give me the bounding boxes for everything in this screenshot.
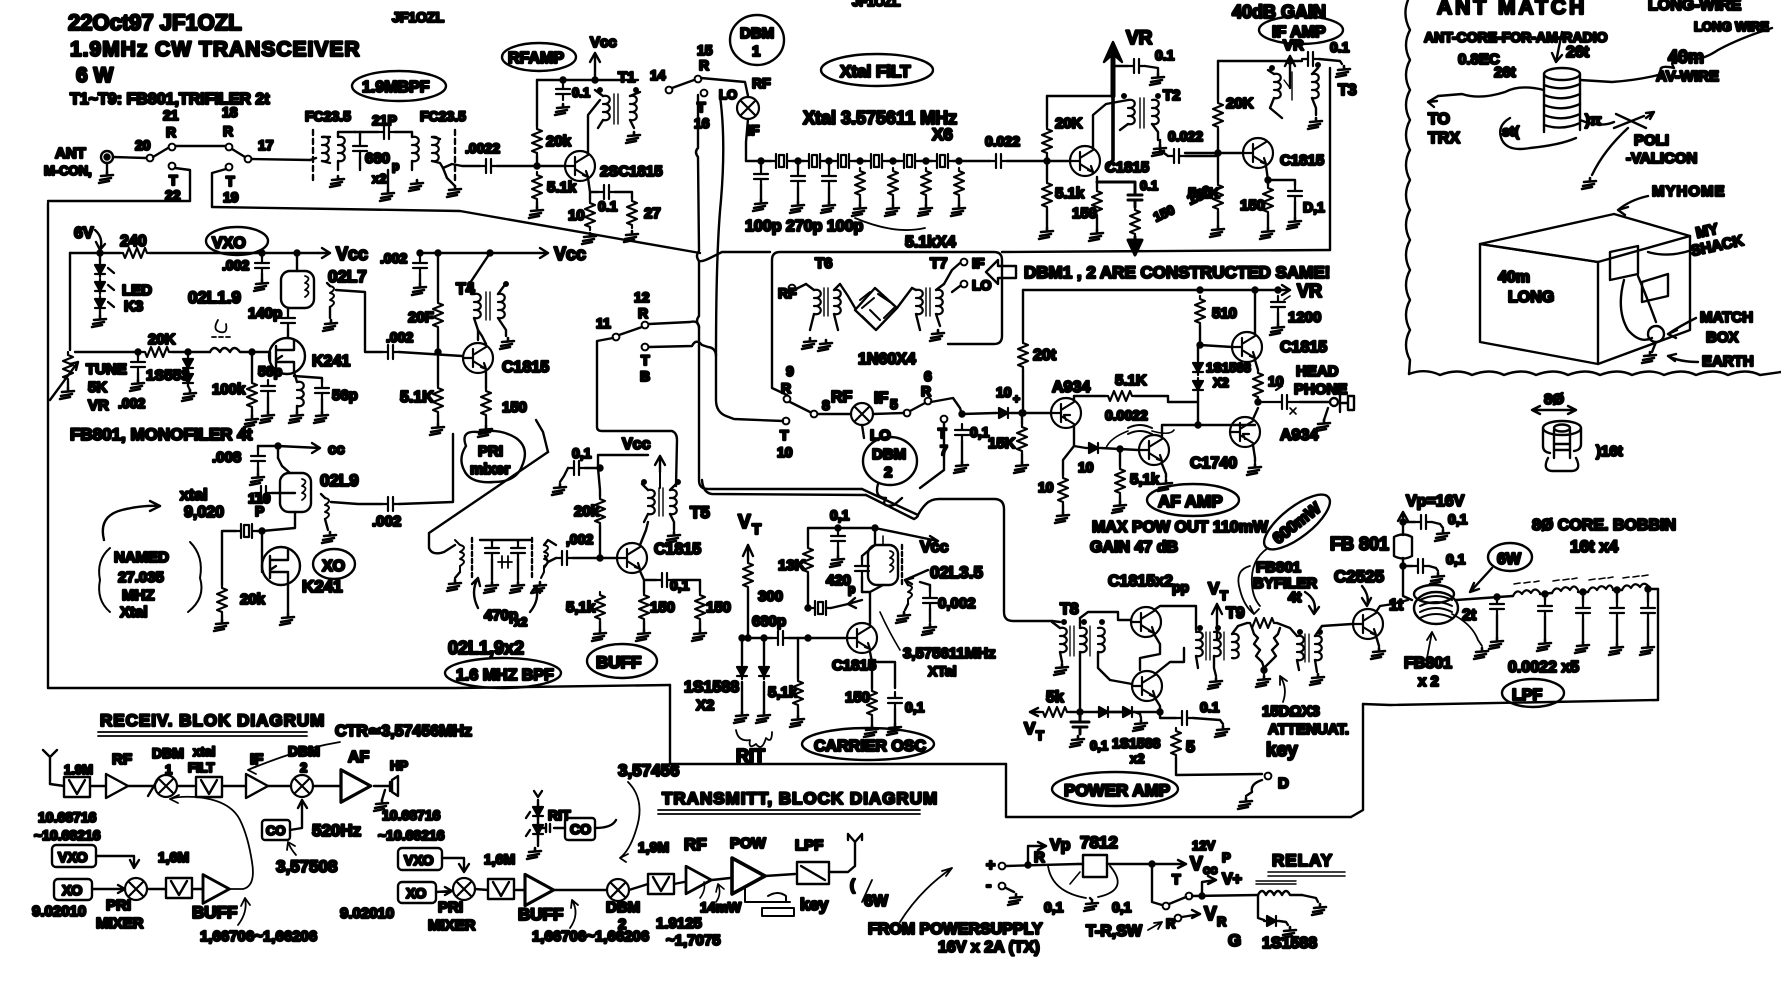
svg-text:RFAMP: RFAMP — [508, 50, 564, 67]
Q2 collector to T9 — [1155, 648, 1184, 674]
relay wire — [1192, 895, 1258, 896]
cap .002 vxo — [255, 257, 269, 274]
wire a934 emitter — [1253, 408, 1258, 419]
svg-text:JF1OZL: JF1OZL — [852, 0, 900, 9]
bus A second line — [702, 480, 866, 495]
svg-text:T1: T1 — [618, 69, 636, 86]
ground BPF out — [447, 186, 461, 197]
svg-text:~10.68216: ~10.68216 — [34, 827, 101, 843]
svg-text:1S1588: 1S1588 — [684, 679, 739, 696]
rx antenna — [43, 750, 57, 784]
crystal X6 — [932, 154, 953, 168]
switch arm 11-12 — [619, 327, 642, 335]
FET K241 vxo — [269, 338, 305, 374]
svg-text:~1,7075: ~1,7075 — [666, 932, 721, 949]
crystal carrier — [810, 601, 831, 615]
svg-text:3,57456: 3,57456 — [618, 761, 679, 780]
psu minus ground — [1006, 888, 1014, 892]
svg-text:-VALICON: -VALICON — [1626, 150, 1697, 167]
oval POWER AMP — [1052, 772, 1178, 806]
svg-text:9: 9 — [786, 363, 794, 379]
svg-text:15K: 15K — [988, 435, 1016, 452]
svg-text:+: + — [986, 857, 995, 874]
svg-text:6W: 6W — [864, 893, 889, 910]
house roof — [1480, 214, 1690, 262]
wire diode col to a934 — [1198, 420, 1255, 425]
svg-text:P: P — [255, 503, 264, 519]
svg-text:T: T — [780, 427, 789, 443]
svg-text:POLI: POLI — [1634, 132, 1669, 149]
cap 420p — [855, 560, 869, 577]
ground T3 — [1308, 118, 1322, 129]
BPF output coil — [432, 137, 439, 161]
svg-text:11: 11 — [596, 315, 611, 331]
vcc arrow buff — [655, 456, 665, 472]
curve 600mW pointer — [1252, 548, 1268, 606]
attenuator out to T10 — [1277, 623, 1297, 636]
svg-text:40m: 40m — [1498, 269, 1530, 286]
transistor C1815 buff — [617, 543, 647, 573]
Q emitters join — [1140, 634, 1160, 712]
oval AF AMP — [1147, 484, 1239, 516]
svg-text:RF: RF — [778, 285, 797, 301]
svg-text:0,1: 0,1 — [905, 699, 925, 715]
c2525 collector out — [1376, 600, 1408, 612]
resistor 300 — [743, 560, 753, 590]
hp ground — [382, 790, 385, 800]
antenna coil cylinder — [1544, 68, 1580, 80]
pa input wire — [1052, 621, 1060, 622]
wire ant to switch — [113, 157, 146, 158]
svg-text:AF AMP: AF AMP — [1158, 492, 1223, 511]
relay feed down — [1152, 864, 1162, 905]
transistor C1815 right — [1243, 138, 1273, 168]
svg-text:Vcc: Vcc — [554, 244, 586, 264]
svg-text:10: 10 — [568, 207, 585, 224]
emitter network — [588, 178, 598, 200]
oval LPF — [1502, 679, 1564, 707]
lpf cap 2 — [1538, 600, 1552, 617]
wire T22 down — [175, 168, 190, 201]
bpf input coil — [455, 540, 464, 572]
svg-text:PRI: PRI — [478, 443, 503, 460]
cap 0.022 to T3 stage — [1168, 149, 1185, 163]
arrow matchbox — [1668, 318, 1696, 338]
omega squiggle — [215, 320, 226, 332]
Vcc arrow vxo — [318, 248, 330, 258]
svg-text:02L3.5: 02L3.5 — [930, 563, 983, 582]
rail if right — [1218, 60, 1302, 62]
cap 56p left — [261, 380, 275, 397]
wire to 15K node — [1011, 412, 1022, 414]
svg-text:P: P — [1222, 850, 1231, 865]
svg-text:5,1K: 5,1K — [1188, 185, 1220, 202]
svg-text:0.022: 0.022 — [1168, 128, 1203, 144]
cc rail — [258, 443, 320, 458]
coupled coil 02L35 — [908, 585, 912, 604]
oval 6W — [1488, 543, 1532, 571]
svg-text:1.9MBPF: 1.9MBPF — [362, 79, 430, 96]
svg-text:MATCH: MATCH — [1700, 309, 1753, 326]
svg-text:T2: T2 — [1163, 87, 1181, 104]
resistor 10 — [585, 200, 595, 230]
open arrow dbm note — [986, 260, 1016, 284]
wire 15 to mixer RF — [701, 78, 748, 96]
wire rail corner down — [1022, 290, 1024, 340]
bus A vertical — [696, 95, 862, 489]
resistor 20k buff — [595, 496, 605, 526]
svg-text:T: T — [169, 172, 178, 188]
transistor Q2 pa — [1132, 671, 1162, 701]
svg-text:HEAD: HEAD — [1296, 363, 1339, 380]
diode 1S553 — [183, 356, 193, 371]
underline transmit — [658, 810, 920, 814]
svg-text:XO: XO — [62, 882, 82, 898]
cap 0.1 carrier — [831, 530, 845, 547]
emitter node right — [1266, 166, 1295, 185]
Q1 collector to T9 — [1154, 606, 1196, 630]
cap 140p — [281, 312, 295, 329]
outline bottom right — [1006, 816, 1351, 818]
svg-text:4t: 4t — [1288, 589, 1301, 606]
svg-text:100k: 100k — [212, 381, 246, 398]
wire mixer to filter — [746, 119, 748, 161]
tx antenna — [829, 834, 862, 872]
wire T19 bus to centre — [212, 207, 700, 253]
svg-text:9,020: 9,020 — [184, 504, 224, 521]
output transformer windings — [1297, 636, 1304, 660]
svg-text:15: 15 — [697, 42, 713, 58]
box 7812 — [1083, 855, 1107, 877]
mixer DBM1 — [737, 97, 759, 119]
resistor 20t — [1018, 340, 1028, 370]
carrier top rail — [808, 528, 938, 545]
svg-text:C1815: C1815 — [654, 541, 701, 558]
svg-text:G: G — [1228, 931, 1241, 950]
a934a emitter up — [1074, 396, 1105, 400]
svg-text:)16t: )16t — [1596, 443, 1623, 460]
wire pri out top — [536, 420, 548, 452]
T2 centre feed bold — [1107, 96, 1113, 168]
svg-text:1N60X4: 1N60X4 — [858, 351, 916, 368]
c1740 base wire — [1101, 448, 1138, 450]
wire co to curve — [595, 820, 616, 828]
LO node — [961, 281, 968, 288]
brace 5.1kx4 — [855, 218, 925, 230]
svg-text:T9: T9 — [1226, 605, 1245, 622]
key contact — [1265, 773, 1272, 780]
svg-text:LONG: LONG — [1508, 289, 1554, 306]
feedback arrow xtal — [848, 598, 862, 608]
svg-text:CO: CO — [570, 821, 591, 837]
svg-text:pp: pp — [1172, 579, 1189, 595]
svg-text:5.1K: 5.1K — [1115, 372, 1147, 389]
lpf cap 3 — [1576, 602, 1590, 619]
VR arrow bold — [1111, 48, 1116, 96]
outline step buff — [669, 685, 671, 764]
bubble PRI mixer — [461, 431, 524, 482]
transformer T3 — [1274, 74, 1281, 98]
Vcc arrow — [590, 53, 600, 79]
outline lpf right — [1657, 589, 1659, 700]
svg-text:150: 150 — [1240, 197, 1265, 214]
svg-text:150: 150 — [845, 689, 870, 706]
svg-text:x2: x2 — [1130, 751, 1144, 766]
coupled coil 02L9 — [325, 498, 329, 519]
svg-text:Vcc: Vcc — [590, 34, 617, 51]
svg-text:T: T — [938, 425, 947, 441]
svg-text:D,1: D,1 — [1303, 199, 1325, 215]
svg-text:C2525: C2525 — [1334, 567, 1384, 586]
resistor 150 b — [695, 592, 705, 622]
svg-text:V+: V+ — [1222, 871, 1242, 888]
svg-text:FROM POWERSUPPLY: FROM POWERSUPPLY — [868, 921, 1043, 938]
resistor 240 — [120, 248, 150, 258]
wire left bus horizontal — [48, 200, 190, 202]
svg-text:VR: VR — [1283, 37, 1304, 54]
box 1.9M rx — [64, 777, 90, 797]
svg-text:8Ø CORE. BOBBIN: 8Ø CORE. BOBBIN — [1532, 517, 1676, 534]
svg-text:DBM: DBM — [606, 899, 640, 916]
svg-text:R: R — [1217, 914, 1227, 929]
wire to key — [1176, 758, 1262, 775]
svg-text:Vp=16V: Vp=16V — [1406, 493, 1465, 510]
bpf cap pair 470p — [485, 542, 499, 559]
wire varicap ground — [1592, 128, 1628, 175]
arrow 6w — [1470, 568, 1492, 592]
svg-text:1,66706~1,66206: 1,66706~1,66206 — [200, 928, 317, 945]
arrow myhome — [1618, 196, 1648, 215]
svg-text:1.9125: 1.9125 — [656, 915, 702, 932]
svg-text:T3: T3 — [1338, 82, 1357, 99]
box 1.9M tx — [648, 874, 674, 894]
svg-text:VXO: VXO — [58, 849, 88, 865]
bpf dashed right — [531, 538, 533, 578]
buff cap 0.1 — [568, 461, 585, 475]
oval 600mW rotated — [1256, 486, 1338, 559]
svg-text:20K: 20K — [148, 331, 176, 348]
amp BUFF rx — [203, 875, 229, 904]
amp RF rx — [106, 774, 128, 798]
svg-text:RF: RF — [831, 389, 853, 406]
svg-text:R: R — [638, 305, 648, 321]
T9 windings — [1196, 632, 1203, 656]
svg-text:V: V — [1190, 854, 1203, 875]
svg-text:10.68716: 10.68716 — [382, 807, 441, 823]
svg-text:C1815x2: C1815x2 — [1108, 573, 1173, 590]
emitter carrier — [870, 652, 895, 688]
cap .002 base — [382, 345, 399, 359]
cap .002 tune — [131, 356, 145, 373]
svg-text:150: 150 — [1072, 205, 1097, 222]
svg-text:13K: 13K — [778, 557, 806, 574]
vxo rail — [70, 252, 318, 254]
svg-text:-: - — [986, 877, 991, 894]
box CO rx — [262, 820, 290, 840]
svg-text:M-CON,: M-CON, — [44, 163, 92, 178]
xo out wire — [331, 502, 382, 504]
arrow 470p right — [530, 586, 540, 612]
ground xo fet — [287, 582, 289, 614]
wire 11 to buff T5 — [597, 338, 677, 486]
cap 0.1 bypass — [556, 83, 570, 100]
house front — [1480, 244, 1598, 364]
shunt cap 100p b — [822, 170, 836, 187]
svg-text:BUFF: BUFF — [596, 653, 641, 672]
switch arm 14-15 — [672, 80, 694, 88]
box VXO rx — [52, 845, 96, 867]
bpf output coil — [541, 545, 548, 578]
a934 out collector ground — [1253, 445, 1255, 462]
second vcc rail — [420, 248, 548, 258]
wire vxo to mixer — [96, 856, 139, 868]
svg-text:16V x 2A (TX): 16V x 2A (TX) — [938, 939, 1040, 956]
oval VXO — [206, 227, 268, 255]
svg-text:RIT: RIT — [548, 807, 571, 823]
resistor 10 af — [1253, 370, 1263, 400]
diode 10 b — [1086, 443, 1101, 453]
svg-text:.002: .002 — [380, 250, 407, 266]
ground 27 — [624, 231, 638, 242]
wire 6R to right — [931, 398, 996, 414]
svg-text:0.0022: 0.0022 — [1105, 407, 1148, 423]
emitter c1815 af — [1255, 360, 1258, 370]
svg-text:1,6M: 1,6M — [158, 849, 189, 865]
cap 0.1 vp a — [1415, 515, 1432, 529]
house side — [1598, 236, 1690, 364]
box CO tx — [565, 818, 595, 840]
svg-text:V: V — [1204, 904, 1217, 925]
svg-text:2: 2 — [618, 916, 626, 933]
transistor A934 first — [1051, 398, 1081, 428]
wire vp to 1t — [1403, 566, 1412, 600]
svg-text:T1~T9: FB801,TRIFILER 2t: T1~T9: FB801,TRIFILER 2t — [70, 91, 270, 108]
svg-text:20t: 20t — [1033, 347, 1057, 364]
svg-text:27: 27 — [644, 205, 661, 222]
electrolytic cylinder vp — [1394, 532, 1412, 566]
transistor C1815 carrier — [847, 623, 877, 653]
oval CARRIER OSC — [802, 728, 934, 760]
svg-text:VXO: VXO — [212, 235, 246, 252]
key ground squiggle — [1246, 780, 1262, 796]
svg-text:VR: VR — [1297, 281, 1322, 301]
svg-text:680: 680 — [365, 150, 390, 167]
svg-text:240: 240 — [120, 233, 147, 250]
bold ground — [1128, 237, 1142, 255]
cap 0.1 emitter buff — [656, 573, 673, 587]
resistor 150 a — [639, 592, 649, 622]
svg-text:10: 10 — [777, 444, 793, 460]
VR arrow psu — [1182, 910, 1200, 918]
lpf cap 1 — [1490, 598, 1504, 615]
svg-text:C1815: C1815 — [1280, 152, 1324, 169]
amp AF rx — [341, 770, 371, 802]
outline right step — [1351, 704, 1363, 817]
resistor 20K right — [1213, 100, 1223, 130]
ground coil3 — [409, 180, 423, 191]
svg-text:x2: x2 — [514, 615, 528, 629]
svg-text:10.68716: 10.68716 — [38, 809, 97, 825]
svg-text:02L9: 02L9 — [320, 471, 359, 490]
from psu arrow — [900, 868, 952, 922]
resistor 20K bias — [1042, 126, 1052, 156]
svg-text:xtal: xtal — [180, 487, 208, 504]
crystal X3 — [833, 154, 854, 168]
c1740 collector — [1162, 425, 1198, 436]
crystal X5 — [899, 154, 920, 168]
T6 windings — [814, 290, 821, 314]
bus B LO curve — [716, 96, 783, 421]
svg-text:1.9M: 1.9M — [64, 762, 93, 777]
resistor 20K vxo — [142, 347, 172, 357]
cap 680p — [353, 140, 367, 157]
svg-text:0.1: 0.1 — [1140, 178, 1158, 193]
pot TUNE 5K VR — [63, 352, 73, 382]
house door panel — [1642, 274, 1668, 302]
arrow 6V — [95, 230, 105, 250]
inductor box 02L9 — [280, 473, 311, 512]
transistor C1815 af — [1232, 332, 1262, 362]
svg-text:C1815: C1815 — [502, 359, 549, 376]
svg-text:8Ø: 8Ø — [1544, 391, 1564, 408]
svg-text:BYFILER: BYFILER — [1253, 575, 1317, 592]
ground led — [92, 316, 106, 327]
toroid bobbin sketch — [1543, 421, 1581, 435]
svg-text:0,002: 0,002 — [938, 595, 976, 612]
svg-text:XTal: XTal — [928, 663, 957, 679]
svg-text:6W: 6W — [1497, 551, 1522, 568]
svg-text:BUFF: BUFF — [518, 905, 563, 924]
svg-text:V: V — [1208, 579, 1220, 598]
svg-text:520Hz: 520Hz — [312, 821, 361, 840]
oval XO — [313, 549, 355, 579]
transistor 2SC1815 — [565, 151, 595, 181]
svg-text:0.0022 x5: 0.0022 x5 — [1508, 659, 1579, 676]
oval RFAMP — [502, 43, 576, 71]
amp IF rx — [246, 774, 268, 798]
RF input node dbm — [789, 285, 796, 292]
svg-text:mixer: mixer — [470, 461, 510, 478]
svg-text:K241: K241 — [312, 353, 350, 370]
svg-text:T5: T5 — [690, 503, 710, 522]
wire collector to T1 — [588, 100, 600, 155]
wire TB to bus crossing hop — [649, 342, 716, 356]
svg-text:POWER AMP: POWER AMP — [1064, 781, 1170, 800]
svg-text:56p: 56p — [258, 363, 282, 379]
svg-text:16: 16 — [694, 115, 710, 131]
RIT brace — [736, 730, 772, 747]
svg-text:0.1: 0.1 — [572, 85, 590, 100]
svg-text:T: T — [1220, 588, 1228, 603]
carrier collector — [862, 585, 883, 624]
svg-text:20k: 20k — [240, 591, 266, 608]
svg-text:IF: IF — [250, 751, 263, 768]
svg-text:(: ( — [850, 877, 855, 894]
svg-text:T: T — [641, 352, 650, 368]
oval DBM1 — [730, 15, 784, 65]
resistor 5.1K pri — [433, 385, 443, 415]
svg-text:20F: 20F — [408, 309, 434, 326]
shack wires — [1621, 280, 1652, 340]
mixer IF5 — [851, 403, 873, 425]
resistor 510 — [1195, 296, 1205, 326]
svg-text:CARRIER OSC: CARRIER OSC — [814, 738, 926, 755]
svg-text:2: 2 — [300, 760, 307, 775]
svg-text:140p: 140p — [248, 305, 282, 322]
svg-text:02L1,9x2: 02L1,9x2 — [448, 638, 524, 658]
svg-text:Vp: Vp — [1050, 837, 1071, 854]
cap 1200 — [1271, 296, 1285, 313]
